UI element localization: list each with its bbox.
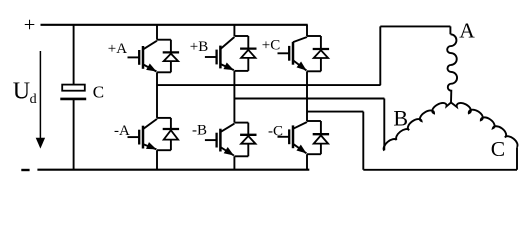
wire emitter junction 3 (+B): [234, 70, 248, 72]
winding B (stator coil): [384, 103, 451, 151]
svg-text:d: d: [30, 92, 37, 107]
transistor V1 (+A) (IGBT): [128, 41, 158, 72]
wire emitter junction 2 (-A): [157, 149, 171, 151]
wire emitter junction 4 (-B): [234, 155, 248, 157]
svg-text:U: U: [13, 79, 30, 105]
diode D5 (+C): [313, 36, 329, 71]
wire collector junction 5 (+C): [307, 35, 321, 37]
svg-text:+B: +B: [190, 39, 208, 55]
transistor V4 (-B) (IGBT): [205, 124, 235, 156]
transistor V6 (-C) (IGBT): [278, 122, 308, 153]
wire emitter junction 5 (+C): [307, 70, 321, 72]
diode D4 (-B): [240, 123, 256, 157]
wire capacitor bottom: [73, 100, 75, 170]
wire collector junction 2 (-A): [157, 117, 171, 119]
diode D3 (+B): [240, 36, 256, 71]
wire collector junction 1 (+A): [157, 39, 171, 41]
svg-text:-B: -B: [192, 122, 207, 138]
diode D1 (+A): [163, 40, 179, 73]
node minus terminal: [21, 169, 29, 171]
wire bottom DC bus: [37, 169, 309, 171]
svg-text:+A: +A: [108, 41, 127, 57]
svg-text:+: +: [24, 14, 36, 36]
wire collector junction 4 (-B): [234, 122, 248, 124]
wire emitter junction 6 (-C): [307, 153, 321, 155]
wire top DC bus: [41, 24, 308, 26]
wire leg3 spine bottom: [306, 154, 308, 170]
svg-text:B: B: [393, 105, 408, 130]
wire collector junction 6 (-C): [307, 120, 321, 122]
svg-text:A: A: [459, 18, 475, 42]
wire leg1 spine bottom: [156, 150, 158, 170]
svg-text:-C: -C: [268, 123, 283, 139]
transistor V5 (+C) (IGBT): [278, 37, 308, 71]
diode D6 (-C): [313, 121, 329, 154]
transistor V2 (-A) (IGBT): [128, 119, 158, 149]
wire leg3 spine middle: [306, 71, 308, 121]
wire leg2 spine middle: [233, 71, 235, 123]
winding A (stator coil): [447, 34, 457, 102]
winding C (stator coil): [451, 103, 518, 148]
wire phase C rail: [307, 112, 517, 170]
transistor V3 (+B) (IGBT): [205, 37, 235, 70]
wire phase B rail: [234, 99, 384, 151]
wire leg2 spine top: [233, 25, 235, 36]
wire collector junction 3 (+B): [234, 35, 248, 37]
Ud arrow: [39, 51, 41, 139]
diode D2 (-A): [163, 118, 179, 150]
capacitor C: [62, 85, 85, 91]
wire phase A rail: [157, 26, 450, 85]
wire leg1 spine middle: [156, 72, 158, 118]
wire leg3 spine top: [306, 25, 308, 36]
wire emitter junction 1 (+A): [157, 71, 171, 73]
svg-text:C: C: [491, 137, 505, 161]
svg-text:-A: -A: [114, 123, 130, 139]
wire leg2 spine bottom: [233, 156, 235, 169]
wire leg1 spine top: [156, 25, 158, 40]
svg-text:C: C: [93, 83, 104, 102]
wire capacitor top: [73, 25, 75, 85]
svg-text:+C: +C: [262, 38, 280, 54]
